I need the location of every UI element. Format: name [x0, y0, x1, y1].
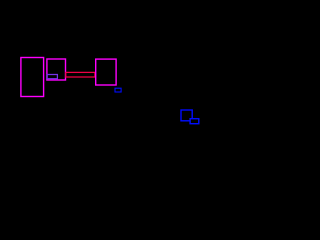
- block U1 (left box): [21, 58, 44, 97]
- port P1 (purple sub-box inside U2): [47, 75, 57, 79]
- block U2 (middle box): [47, 59, 66, 80]
- window icon small rect (bottom-right overlay): [190, 119, 199, 124]
- block U3 (right box): [96, 59, 116, 85]
- pin label box (blue, below U3): [115, 88, 121, 92]
- window icon outer square (bottom-right): [181, 110, 192, 121]
- bus wire (red connector U2 to U3): [66, 72, 95, 77]
